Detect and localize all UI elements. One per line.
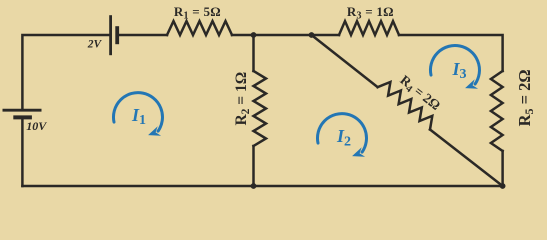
wire R1 to R3 [232, 34, 339, 37]
svg-text:R2 = 1Ω: R2 = 1Ω [233, 72, 252, 126]
loop current I2 arrowhead [350, 147, 365, 161]
loop current I1 arrowhead [146, 126, 161, 140]
wire node A to R2 [252, 35, 255, 71]
battery 2V short plate [115, 26, 119, 44]
battery 10V long plate [3, 109, 42, 112]
node B junction dot (diagonal top) [309, 32, 315, 38]
resistor R1 [167, 21, 232, 35]
wire 2V battery to R1 [119, 34, 167, 37]
resistor R5 [491, 71, 503, 151]
node A junction dot (R2 top) [251, 32, 257, 38]
loop current I3 arc [430, 46, 479, 84]
svg-text:10V: 10V [26, 119, 47, 133]
resistor R3 [339, 21, 399, 35]
loop current I3 arrowhead [463, 79, 478, 93]
svg-text:2V: 2V [87, 39, 103, 51]
wire 10V battery to bottom-left corner [21, 119, 24, 186]
wire R4 to bottom-right corner [430, 130, 503, 187]
svg-text:R3 = 1Ω: R3 = 1Ω [347, 4, 394, 22]
loop current I1 arc [113, 93, 162, 131]
battery 2V long plate [109, 15, 112, 55]
wire node B to R4 [312, 35, 378, 87]
wire R3 to top-right corner down to R5 [399, 35, 503, 71]
wire R2 to bottom rail [252, 146, 255, 186]
node C junction dot (R2 bottom) [251, 183, 257, 189]
wire R5 to bottom-right corner [501, 151, 504, 186]
resistor R4 [378, 82, 433, 130]
battery 10V short plate [13, 115, 32, 119]
svg-text:R1 = 5Ω: R1 = 5Ω [174, 4, 221, 22]
wire left rail top + top rail to 2V battery [22, 35, 109, 110]
bottom rail wire [22, 185, 502, 188]
node D junction dot (bottom-right corner) [500, 183, 506, 189]
svg-text:R5 = 2Ω: R5 = 2Ω [515, 69, 536, 126]
resistor R2 [254, 71, 267, 146]
loop current I2 arc [317, 114, 366, 152]
